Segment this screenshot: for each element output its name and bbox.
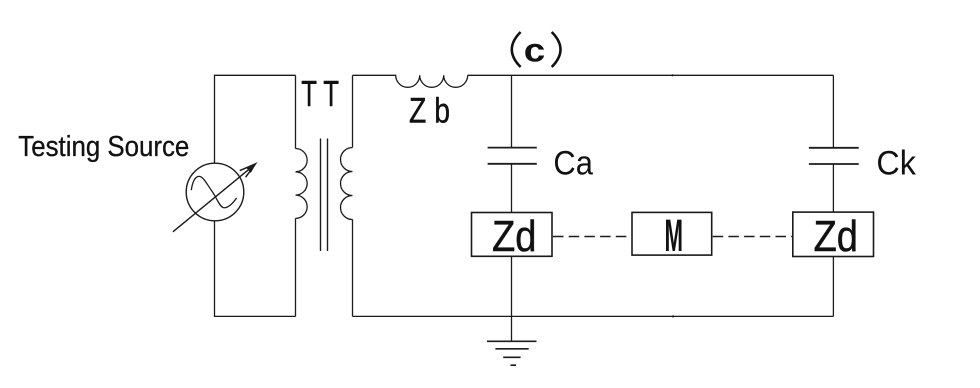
wire Ck branch top: [832, 75, 834, 148]
wire primary side vertical with transformer primary winding: [295, 75, 297, 148]
box Zd right: [793, 212, 874, 256]
transformer core: [320, 139, 322, 252]
junction dot bottom bus: [672, 315, 674, 317]
wire bottom bus: [353, 315, 834, 317]
wire Ca to Zd: [511, 164, 513, 213]
transformer T secondary winding: [352, 75, 354, 147]
ground: [487, 341, 537, 365]
box Zd left: [472, 213, 553, 257]
AC source V1 (variable testing source): [173, 163, 256, 232]
capacitor Ca: [488, 147, 537, 149]
svg-text:Zd: Zd: [814, 213, 859, 261]
svg-text:Z b: Z b: [409, 91, 450, 131]
svg-text:c: c: [524, 32, 546, 69]
inductor Zb: [353, 75, 468, 87]
dashed link Zd-M: [553, 236, 632, 238]
node (c): [512, 32, 561, 69]
wire Zd left to ground bus: [511, 256, 513, 341]
wire Zd right to bottom bus: [832, 257, 834, 317]
wire Ck to Zd right: [832, 164, 834, 212]
svg-text:Testing Source: Testing Source: [18, 131, 189, 163]
svg-text:Ck: Ck: [876, 144, 916, 182]
svg-text:Ca: Ca: [553, 144, 593, 182]
wire top bus from inductor to right corner: [468, 74, 834, 76]
wire left loop (testing source loop): [215, 75, 296, 316]
svg-text:Zd: Zd: [492, 213, 537, 261]
junction dot top bus: [671, 74, 673, 76]
transformer T primary winding: [296, 149, 308, 219]
box M: [632, 212, 712, 255]
svg-text:T T: T T: [301, 73, 339, 114]
svg-text:M: M: [665, 210, 684, 261]
dashed link M-Zd: [713, 236, 793, 238]
capacitor Ck: [809, 147, 859, 149]
wire Ca branch top: [511, 75, 513, 147]
